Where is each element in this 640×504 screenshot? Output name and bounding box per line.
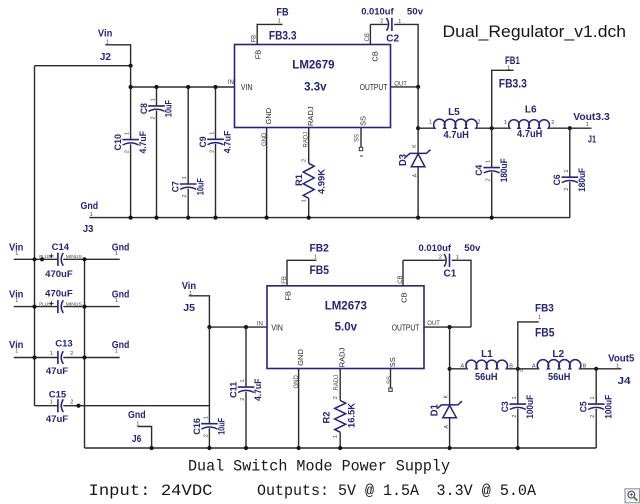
svg-text:IN: IN — [228, 80, 234, 86]
svg-text:50v: 50v — [407, 6, 424, 17]
wire J5 stub — [189, 296, 210, 327]
junction top rail at C10 — [129, 85, 133, 89]
svg-text:IN: IN — [257, 321, 263, 327]
svg-text:L1: L1 — [481, 349, 493, 360]
svg-text:1: 1 — [240, 379, 246, 382]
svg-text:1: 1 — [586, 122, 589, 128]
svg-text:+: + — [49, 299, 54, 308]
svg-text:C7: C7 — [171, 181, 181, 192]
svg-text:C8: C8 — [139, 103, 149, 114]
svg-text:FB: FB — [282, 276, 288, 284]
svg-text:R1: R1 — [294, 174, 304, 186]
svg-text:2: 2 — [151, 116, 157, 119]
SS pin end square — [359, 147, 362, 150]
svg-text:2: 2 — [380, 19, 383, 25]
svg-text:1: 1 — [278, 18, 281, 24]
svg-text:A: A — [461, 363, 465, 369]
capacitor C10 — [113, 131, 148, 154]
wire Vin row3 (C13) — [14, 357, 120, 359]
capacitor C16 — [192, 416, 227, 437]
node Vin row2 — [9, 290, 23, 305]
junction gnd rail C10 — [129, 216, 133, 220]
svg-text:Gnd: Gnd — [81, 201, 99, 212]
svg-text:4.99K: 4.99K — [316, 168, 326, 194]
svg-text:1: 1 — [302, 199, 308, 202]
svg-text:L6: L6 — [525, 104, 537, 115]
junction gnd rail C9 — [213, 216, 217, 220]
wire LM2679 FB stub — [257, 24, 282, 44]
svg-text:2: 2 — [564, 188, 570, 191]
svg-text:Vout5: Vout5 — [608, 353, 635, 364]
svg-text:C1: C1 — [444, 269, 457, 280]
svg-text:J1: J1 — [588, 135, 597, 146]
svg-text:1: 1 — [429, 120, 432, 126]
svg-text:FB5: FB5 — [310, 265, 330, 277]
svg-text:OUT: OUT — [394, 82, 407, 88]
svg-text:L5: L5 — [448, 107, 460, 118]
svg-text:MINUS: MINUS — [66, 302, 82, 307]
svg-text:100uF: 100uF — [525, 394, 535, 418]
wire bottom ground rail — [85, 447, 597, 449]
svg-text:C5: C5 — [579, 401, 589, 412]
svg-text:1: 1 — [333, 435, 339, 438]
svg-text:1: 1 — [115, 349, 118, 355]
capacitor C5 — [579, 394, 614, 418]
svg-text:180uF: 180uF — [499, 158, 509, 182]
svg-text:FB: FB — [276, 6, 288, 18]
resistor R2 16.5K — [322, 396, 357, 438]
wire D1 branch — [449, 327, 451, 448]
svg-text:470uF: 470uF — [45, 288, 73, 299]
wire Gnd bus — [84, 259, 86, 448]
junction C15 pin2 — [76, 404, 80, 408]
svg-text:16.5K: 16.5K — [347, 402, 357, 428]
svg-text:MINUS: MINUS — [66, 254, 82, 259]
inductor L6 4.7uH — [504, 104, 555, 140]
svg-text:D1: D1 — [429, 404, 440, 416]
svg-text:CB: CB — [365, 33, 371, 41]
svg-text:LM2679: LM2679 — [292, 60, 334, 72]
svg-text:Gnd: Gnd — [128, 410, 146, 421]
svg-text:3.3V @ 5.0A: 3.3V @ 5.0A — [437, 482, 537, 500]
wire LM2673 OUTPUT — [424, 326, 471, 328]
svg-text:B: B — [509, 363, 513, 369]
junction top rail at C8 — [154, 85, 158, 89]
svg-text:1: 1 — [512, 396, 518, 399]
regulator LM2673 — [267, 286, 424, 369]
svg-text:47uF: 47uF — [46, 366, 68, 377]
junction top rail at C9 — [213, 85, 217, 89]
node Vin row3 — [9, 340, 23, 355]
svg-text:RADJ: RADJ — [304, 132, 310, 148]
svg-text:C15: C15 — [49, 390, 67, 401]
wire LM2679 RADJ pin to R1 — [308, 128, 310, 218]
node FB1 (3.3V output sense) — [505, 55, 520, 72]
svg-text:1: 1 — [115, 298, 118, 304]
wire 3.3V ground rail (J3) — [89, 217, 570, 219]
svg-text:FB: FB — [283, 291, 292, 301]
svg-text:2: 2 — [203, 434, 209, 437]
junction top rail at C7 — [186, 85, 190, 89]
capacitor C9 — [198, 130, 233, 153]
svg-text:FB3: FB3 — [535, 303, 554, 315]
svg-text:180uF: 180uF — [577, 167, 587, 191]
svg-text:C10: C10 — [113, 134, 123, 151]
svg-text:J5: J5 — [183, 303, 195, 314]
svg-text:CB: CB — [398, 275, 404, 283]
svg-text:10uF: 10uF — [217, 418, 227, 435]
svg-text:FB3.3: FB3.3 — [269, 30, 297, 42]
svg-text:1: 1 — [50, 351, 53, 357]
capacitor C4 — [474, 158, 509, 182]
svg-text:FB5: FB5 — [535, 328, 555, 340]
svg-text:R2: R2 — [322, 412, 332, 424]
wire C10 branch — [130, 66, 132, 218]
wire J2 stub to Vin bus — [35, 45, 131, 66]
svg-text:1: 1 — [136, 421, 139, 427]
junction gnd rail C7 — [186, 216, 190, 220]
node Vin row1 — [9, 243, 23, 258]
wire C9 branch — [215, 87, 217, 218]
svg-text:10uF: 10uF — [195, 178, 205, 195]
svg-text:47uF: 47uF — [46, 414, 68, 425]
svg-text:CB: CB — [399, 292, 408, 302]
svg-text:2: 2 — [486, 178, 492, 181]
wire LM2679 CB to C2 — [370, 24, 418, 87]
svg-text:C2: C2 — [386, 34, 399, 45]
capacitor C15 47uF — [46, 390, 73, 425]
zoom button bottom-right — [625, 489, 640, 503]
wire J6 stub — [138, 427, 152, 449]
capacitor C7 — [171, 176, 206, 197]
svg-text:2: 2 — [439, 254, 442, 260]
capacitor C1 0.010uf 50v — [419, 243, 482, 280]
wire C8 branch — [156, 87, 158, 218]
node FB3 (5V output sense) — [535, 303, 554, 321]
wire L5 row — [418, 127, 591, 129]
svg-text:1: 1 — [125, 132, 131, 135]
junction gnd rail C8 — [154, 216, 158, 220]
svg-text:2: 2 — [590, 415, 596, 418]
svg-text:RADJ: RADJ — [338, 347, 347, 367]
svg-text:GND: GND — [264, 107, 273, 124]
op-amp / regulator U-block LM2679 — [235, 45, 391, 128]
svg-text:C4: C4 — [474, 165, 484, 176]
wire C16 / J5 column — [208, 327, 210, 448]
svg-text:Outputs: 5V @ 1.5A: Outputs: 5V @ 1.5A — [257, 482, 419, 500]
svg-text:Vin: Vin — [98, 28, 112, 39]
inductor L1 56uH — [461, 349, 524, 383]
wire LM2679 OUTPUT — [391, 86, 419, 88]
svg-text:4.7uH: 4.7uH — [517, 129, 542, 140]
svg-text:2: 2 — [70, 351, 73, 357]
wire C3 branch — [517, 369, 519, 448]
svg-text:1: 1 — [151, 98, 157, 101]
wire C7 branch — [187, 87, 189, 218]
wire C6 branch (J1 column) — [569, 128, 571, 217]
svg-text:4.7uF: 4.7uF — [253, 378, 263, 401]
svg-text:2: 2 — [477, 120, 480, 126]
svg-text:1: 1 — [590, 396, 596, 399]
svg-text:OUTPUT: OUTPUT — [392, 323, 420, 332]
svg-text:0.010uf: 0.010uf — [361, 6, 394, 17]
connector J1 Vout3.3 — [573, 112, 610, 146]
svg-text:C6: C6 — [552, 174, 562, 185]
svg-text:Input: 24VDC: Input: 24VDC — [89, 482, 213, 500]
svg-text:1: 1 — [115, 251, 118, 257]
wire FB3 stub — [518, 322, 539, 369]
svg-text:1: 1 — [90, 212, 93, 218]
svg-text:FB2: FB2 — [310, 243, 329, 255]
wire LM2673 GND pin — [298, 369, 300, 449]
junction C14 pin1 — [40, 257, 44, 261]
wire Vin left bus — [34, 66, 36, 406]
svg-text:J6: J6 — [132, 434, 142, 445]
node FB2 (LM2673 feedback) — [310, 243, 329, 261]
svg-text:OUTPUT: OUTPUT — [360, 83, 388, 92]
svg-text:5.0v: 5.0v — [335, 322, 358, 334]
svg-text:FB: FB — [253, 50, 262, 60]
svg-text:RADJ: RADJ — [306, 106, 315, 126]
capacitor C11 — [228, 378, 263, 401]
connector J5 Vin — [182, 281, 196, 314]
svg-text:1: 1 — [504, 120, 507, 126]
node Gnd row3 — [112, 340, 130, 355]
diode D3 zener — [398, 144, 431, 177]
svg-text:1: 1 — [15, 251, 18, 257]
svg-text:B: B — [583, 363, 587, 369]
svg-text:2: 2 — [551, 120, 554, 126]
svg-text:2: 2 — [333, 396, 339, 399]
svg-text:2: 2 — [210, 150, 216, 153]
svg-text:470uF: 470uF — [45, 269, 73, 280]
svg-text:1: 1 — [210, 132, 216, 135]
wire 5V VIN rail — [209, 326, 267, 328]
svg-text:1: 1 — [314, 255, 317, 261]
wire Vin row1 (C14) — [14, 258, 120, 260]
capacitor C12 470uF polarized (row2) — [39, 288, 82, 313]
wire C5 branch — [595, 369, 597, 448]
svg-text:A: A — [532, 363, 536, 369]
svg-text:2: 2 — [512, 415, 518, 418]
svg-text:C9: C9 — [198, 137, 208, 148]
svg-text:50v: 50v — [464, 243, 481, 254]
wire C15 row (row4) — [35, 405, 210, 407]
svg-text:56uH: 56uH — [475, 372, 498, 383]
capacitor C14 470uF polarized — [39, 242, 82, 280]
svg-text:1: 1 — [182, 176, 188, 179]
svg-text:1: 1 — [538, 315, 541, 321]
svg-text:1: 1 — [616, 363, 619, 369]
junction left bus rows — [32, 257, 36, 261]
svg-text:3.3v: 3.3v — [304, 81, 327, 93]
connector J2 Vin — [98, 28, 112, 62]
svg-text:C3: C3 — [500, 401, 510, 412]
svg-text:100uF: 100uF — [603, 394, 613, 418]
capacitor C2 0.010uf 50v — [361, 6, 424, 44]
wire Vin row2 (470uF) — [14, 306, 120, 308]
svg-text:C16: C16 — [192, 418, 202, 435]
inductor L2 56uH — [532, 349, 587, 383]
capacitor C6 — [552, 167, 587, 191]
svg-text:Vout3.3: Vout3.3 — [573, 112, 610, 123]
wire D3 branch — [417, 87, 419, 218]
svg-text:J2: J2 — [100, 52, 111, 63]
svg-text:2: 2 — [125, 150, 131, 153]
svg-text:4.7uF: 4.7uF — [223, 130, 233, 153]
node FB (LM2679 feedback) — [276, 6, 288, 24]
svg-text:FB3.3: FB3.3 — [499, 78, 527, 90]
connector J6 Gnd — [128, 410, 146, 445]
connector J4 Vout5 — [608, 353, 635, 387]
wire LM2673 CB to C1 — [403, 260, 471, 327]
svg-text:VIN: VIN — [271, 323, 283, 332]
node Gnd row2 — [112, 290, 130, 305]
wire C4 branch — [491, 128, 493, 217]
svg-text:CB: CB — [370, 51, 379, 61]
svg-text:1: 1 — [203, 416, 209, 419]
svg-text:SS: SS — [359, 116, 368, 126]
wire LM2679 SS stub — [360, 128, 362, 148]
capacitor C8 — [139, 98, 174, 119]
svg-text:J4: J4 — [618, 376, 632, 387]
wire top Vin rail to LM2679 VIN — [131, 86, 235, 88]
svg-text:C13: C13 — [55, 339, 72, 350]
svg-text:2: 2 — [240, 398, 246, 401]
wire C11 branch — [245, 327, 247, 448]
capacitor C3 — [500, 394, 535, 418]
capacitor C13 47uF — [46, 339, 73, 377]
svg-text:2: 2 — [70, 399, 73, 405]
wire LM2679 GND pin — [266, 128, 268, 218]
svg-text:1: 1 — [15, 298, 18, 304]
svg-text:D3: D3 — [398, 154, 409, 166]
diode D1 zener — [429, 394, 462, 428]
junction J2 — [129, 64, 133, 68]
svg-text:B: B — [520, 368, 523, 373]
svg-text:Dual_Regulator_v1.dch: Dual_Regulator_v1.dch — [443, 22, 627, 41]
svg-text:C11: C11 — [228, 382, 238, 399]
svg-text:2: 2 — [302, 159, 308, 162]
node Gnd row1 — [112, 243, 130, 258]
svg-text:SS: SS — [354, 134, 360, 142]
connector J3 Gnd — [81, 201, 99, 235]
svg-text:RADJ: RADJ — [334, 375, 340, 391]
wire LM2673 RADJ to R2 — [339, 369, 341, 449]
svg-text:L2: L2 — [552, 349, 564, 360]
svg-text:1: 1 — [106, 40, 109, 46]
wire LM2673 SS stub — [390, 369, 392, 389]
svg-text:GND: GND — [294, 375, 300, 389]
svg-text:56uH: 56uH — [548, 372, 571, 383]
svg-text:1: 1 — [507, 66, 510, 72]
svg-text:1: 1 — [486, 160, 492, 163]
svg-text:4.7uF: 4.7uF — [138, 131, 148, 154]
svg-text:J3: J3 — [83, 224, 94, 235]
svg-text:C14: C14 — [52, 242, 70, 253]
svg-text:GND: GND — [296, 349, 305, 366]
wire L1 L2 row — [450, 368, 622, 370]
svg-text:1: 1 — [564, 170, 570, 173]
svg-text:1: 1 — [15, 349, 18, 355]
svg-text:0.010uf: 0.010uf — [419, 243, 452, 254]
svg-text:4.7uH: 4.7uH — [444, 130, 469, 141]
svg-text:VIN: VIN — [241, 83, 253, 92]
wire LM2673 FB stub — [287, 260, 317, 286]
svg-text:FB: FB — [251, 35, 257, 43]
svg-text:OUT: OUT — [427, 321, 440, 327]
svg-text:SS: SS — [387, 376, 393, 384]
svg-text:1: 1 — [398, 19, 401, 25]
svg-text:SS: SS — [388, 357, 397, 367]
wire FB1 stub — [492, 70, 514, 128]
svg-text:GND: GND — [262, 132, 268, 146]
resistor R1 4.99K — [294, 159, 326, 202]
inductor L5 4.7uH — [429, 107, 481, 141]
svg-text:1: 1 — [456, 255, 459, 261]
svg-text:Dual Switch Mode Power Supply: Dual Switch Mode Power Supply — [188, 458, 450, 476]
svg-text:10uF: 10uF — [164, 100, 174, 117]
svg-text:1: 1 — [189, 291, 192, 297]
svg-text:LM2673: LM2673 — [325, 301, 367, 313]
svg-text:2: 2 — [182, 195, 188, 198]
